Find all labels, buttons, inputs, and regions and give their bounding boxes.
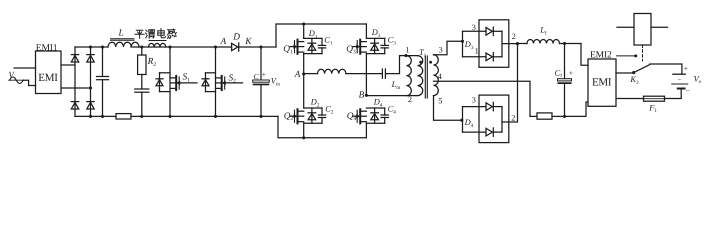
capacitor Cr series [382,69,385,78]
inductor L [108,42,139,47]
transistor Q2 cell [290,74,325,138]
wire EMI2 to fuse [616,98,644,100]
label pin 3 transformer [439,45,443,54]
wire pin5 to module D4 [434,96,463,121]
wire R2 to C [141,75,143,89]
wire pin3 to module D3 [434,41,463,55]
label node B [359,91,365,101]
label Cf plus [569,68,573,77]
wire AC source top lead [14,67,36,69]
svg-text:4: 4 [438,72,442,81]
svg-text:3: 3 [472,96,476,105]
label C bus [254,72,260,81]
svg-text:1: 1 [475,47,479,56]
wire Lf to EMI2 [560,43,582,45]
svg-text:+: + [684,64,689,73]
transistor Q3 cell [353,24,388,95]
EMI1 box text [38,72,58,84]
capacitor damping [135,89,149,92]
svg-text:+: + [569,68,573,77]
label D3 module [464,40,474,51]
label D1 [308,29,318,40]
EMI2 box text [592,77,612,89]
label pin 5 transformer [438,97,442,106]
wire AC source bottom lead [24,80,36,85]
label module D3 pin2 [512,32,516,41]
EMI1 label [36,42,58,53]
junction top rail col2 [89,45,92,48]
diode bridge bottom-left [71,102,78,109]
AC source sine symbol [9,77,24,83]
junction Cf bottom [563,115,566,118]
wire R2 branch upper [141,47,143,55]
label node A bridge [294,70,301,80]
label module D3 pin1 [475,47,479,56]
label D boost [232,32,240,42]
battery Vo [672,74,688,88]
label module D3 pin3 [472,23,476,32]
junction Q2 source rail [302,136,305,139]
inductor L core [111,39,135,41]
svg-text:EMI2: EMI2 [590,49,612,60]
transformer T1 core [425,56,427,98]
junction Q1 drain [302,22,305,25]
relay K3 linkage dashed [642,45,644,61]
svg-text:+: + [262,70,266,79]
label battery minus mid [678,76,682,84]
junction S1 drain [168,45,171,48]
label K3 [629,75,639,86]
svg-text:A: A [220,37,227,47]
junction rectifier output [516,42,519,45]
rectifier module D4 [463,95,509,143]
svg-text:−: − [685,87,690,96]
svg-text:2: 2 [511,113,515,122]
transistor Q1 cell [290,24,325,74]
transistor Q4 cell [353,108,388,138]
label S1 [183,73,191,84]
label Vin [271,77,281,88]
wire return to EMI2 [565,102,589,116]
wire K to riser [239,46,276,48]
transformer T1 secondary [433,55,438,96]
fuse F1 [644,96,665,101]
transformer T1 primary [418,56,423,96]
inductor L2 [149,43,166,47]
wire rect output to Lf [518,43,528,45]
EMI1 filter box [36,51,62,94]
caption smoothing inductor 平滑电感 [135,29,176,39]
label module D4 pin2 [511,113,515,122]
wire D3 output [502,43,518,45]
svg-text:−: − [678,76,682,84]
diode bridge top-left [71,55,78,62]
capacitor input filter [97,47,109,116]
label C2 [325,105,334,116]
wire output return [530,115,565,117]
wire A to Lr [304,73,318,75]
junction switch pivot [632,71,635,74]
svg-text:1: 1 [406,46,410,55]
resistor output sense [537,113,552,119]
wire D4 output [502,44,518,122]
svg-text:K: K [244,37,252,47]
label Q2 [284,111,294,122]
svg-text:EMI1: EMI1 [36,42,58,53]
label node A boost [220,37,227,47]
wire bridge column 1 [74,47,76,116]
junction bridge AC2 [89,86,92,89]
switch S2 with body diode [202,47,243,116]
capacitor C bus [253,47,270,116]
label D4 snubber [373,98,383,109]
label T1 [419,48,427,59]
label Q3 [346,45,356,56]
label Lm [391,80,401,91]
wire switch to battery [650,64,682,74]
junction pin1 [404,54,407,57]
junction S2 source [214,115,217,118]
capacitor Cf [558,44,572,117]
label R2 [147,57,157,68]
label pin 1 [406,46,410,55]
wire damping C to rail [141,92,143,116]
label battery minus [685,87,690,96]
wire EMI2 to switch [616,72,633,74]
switch K3 blade [634,65,650,73]
label Lf [539,26,547,37]
label Vo [694,74,702,85]
label K [244,37,252,47]
junction R2 top [140,45,143,48]
diode D boost [232,43,239,51]
svg-text:B: B [359,91,365,101]
junction bottom rail cap [101,115,104,118]
rectifier module D3 [463,20,509,68]
EMI2 label [590,49,612,60]
label C bus plus [262,70,266,79]
label D4 module [464,118,474,129]
junction S1 source [168,115,171,118]
svg-text:3: 3 [472,23,476,32]
inductor Lf [527,39,560,43]
wire B to primary [366,95,417,97]
wire riser to bridge [276,24,366,47]
svg-text:2: 2 [408,95,412,104]
label pin 4 [438,72,442,81]
junction node A bridge [302,72,305,75]
junction S2 drain [214,45,217,48]
label Cf [555,68,563,79]
EMI2 filter box [588,59,616,106]
resistor input sense [116,114,131,119]
polarity dot primary [419,61,422,64]
wire battery to fuse [665,89,682,99]
wire Cr to riser [386,56,418,74]
junction bottom rail col2 [89,115,92,118]
junction module D4 input [460,119,463,122]
polarity dot secondary [429,61,432,64]
label module D4 pin3 [472,96,476,105]
wire input top rail [75,46,108,48]
svg-text:A: A [294,70,301,80]
svg-text:L: L [118,29,124,39]
junction module D3 input [461,40,464,43]
label pin 2 [408,95,412,104]
label S2 [229,74,237,85]
svg-text:2: 2 [512,32,516,41]
inductor Lm magnetizing [407,56,412,96]
svg-text:3: 3 [439,45,443,54]
label C1 [324,36,333,47]
label F1 [648,103,657,114]
junction node B [365,94,368,97]
wire bridge column 2 [90,47,92,116]
relay K3 coil [634,14,651,46]
wire top rail PFC [131,46,232,48]
label L [118,29,124,39]
junction DC bus cap [259,45,262,48]
wire main bottom rail [131,115,278,117]
junction Cf top [563,42,566,45]
junction R2 bottom [140,115,143,118]
junction C bus bottom [259,115,262,118]
junction top rail cap [101,45,104,48]
wire bottom rail to bridge [278,116,366,137]
wire EMI1 to bridge AC2 [61,87,91,89]
wire input bottom rail left [75,115,116,117]
wire Lf to EMI2 riser [581,44,588,66]
svg-text:EMI: EMI [592,77,612,89]
label D3 snubber [371,28,381,39]
label C3 [388,36,397,47]
label D2 [310,98,320,109]
inductor Lr resonant [318,69,346,73]
wire EMI1 to bridge AC1 [61,64,75,66]
wire centre tap pin4 [434,81,531,116]
label battery plus [684,64,689,73]
svg-text:D: D [232,32,240,42]
inductor L2 core [149,40,166,42]
label Q4 [347,111,357,122]
resistor R2 [138,55,146,75]
svg-text:EMI: EMI [38,72,58,84]
svg-text:5: 5 [438,97,442,106]
label Q1 [283,45,293,56]
wire relay coil left [617,26,634,28]
junction EMI2 tie [634,54,637,57]
diode bridge bottom-right [87,102,94,109]
wire relay coil right [651,26,668,28]
AC source Vs label [9,70,16,82]
wire EMI2 label tie [617,55,635,57]
wire Lr to Cr [346,73,382,75]
switch S1 with body diode [156,47,197,116]
diode bridge top-right [87,55,94,62]
label C4 [388,105,397,116]
